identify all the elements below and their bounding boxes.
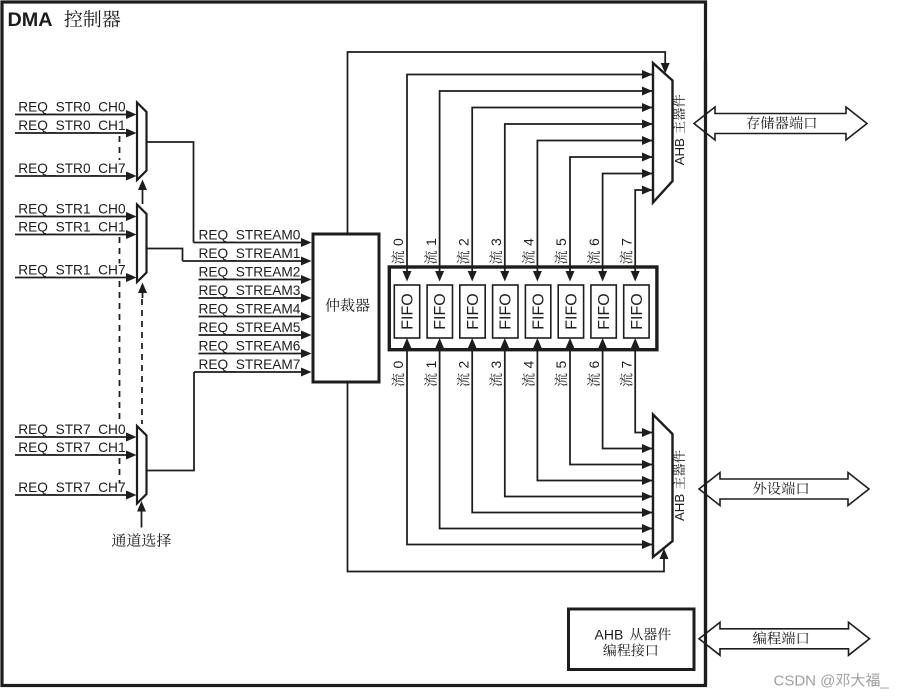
DMA controller outer box [2,2,706,686]
channel mux 1 [137,205,147,283]
wire stream 7 FIFO to AHB master 2 [631,338,653,437]
wire REQ_STREAM4 with label [199,302,312,322]
label 存储器端口 [747,116,816,129]
mux 0 select arrow [138,180,147,205]
svg-text:REQ_STREAM6: REQ_STREAM6 [199,339,301,354]
dashed ellipsis groups 2..6 [119,281,121,424]
programming port double arrow [699,622,870,655]
FIFO 7 [624,285,649,338]
svg-text:2: 2 [455,238,471,246]
wire stream 7 FIFO to AHB master 1 [631,186,653,282]
mux 1 output wire to REQ_STREAM1 [147,249,183,262]
svg-text:AHB: AHB [672,138,687,165]
svg-text:REQ_STREAM7: REQ_STREAM7 [199,357,301,372]
FIFO 1 [427,285,452,338]
svg-text:4: 4 [521,238,537,246]
wire stream 1 FIFO to AHB master 1 [435,87,653,282]
label 流 7 bottom [618,361,634,387]
FIFO 6 [591,285,616,338]
label 流 0 top [390,238,406,264]
svg-text:REQ_STREAM1: REQ_STREAM1 [199,246,301,261]
wire REQ_STR0_CH1 with label [15,118,137,138]
svg-text:REQ_STREAM5: REQ_STREAM5 [199,320,301,335]
svg-text:REQ_STREAM0: REQ_STREAM0 [199,228,301,243]
label 流 2 bottom [455,361,471,387]
watermark CSDN @邓大福_ [774,673,890,690]
svg-text:3: 3 [488,361,504,369]
svg-text:REQ_STR1_CH0: REQ_STR1_CH0 [18,202,126,217]
label 流 2 top [455,238,471,264]
svg-text:FIFO: FIFO [563,293,580,329]
wire stream 2 FIFO to AHB master 1 [468,103,653,282]
dashed ellipsis group1 CH1..CH7 and groups 2..6 [119,237,121,264]
wire REQ_STR7_CH1 with label [15,440,137,460]
svg-text:0: 0 [390,361,406,369]
peripheral port double arrow [699,473,869,506]
wire stream 0 FIFO to AHB master 2 [403,338,654,549]
right border segment over ports [704,60,707,684]
svg-text:7: 7 [618,238,634,246]
wire REQ_STR0_CH0 with label [15,100,137,120]
svg-text:6: 6 [586,361,602,369]
label 流 4 top [521,238,537,264]
FIFO 0 [394,285,419,338]
wire REQ_STR7_CH0 with label [15,422,137,442]
svg-text:REQ_STR1_CH1: REQ_STR1_CH1 [18,220,125,235]
wire arbiter bottom to AHB master 2 [348,382,669,572]
wire stream 3 FIFO to AHB master 2 [500,338,653,501]
svg-text:REQ_STR7_CH7: REQ_STR7_CH7 [18,480,125,495]
label 流 6 top [586,238,602,264]
wire REQ_STREAM7 with label [194,357,312,377]
svg-text:FIFO: FIFO [432,293,449,329]
svg-text:REQ_STR7_CH1: REQ_STR7_CH1 [18,440,125,455]
label 流 5 bottom [553,361,569,387]
svg-text:REQ_STR0_CH1: REQ_STR0_CH1 [18,118,125,133]
AHB slave programming interface box [569,609,695,670]
label AHB 主器件 (master 1) [672,95,687,165]
wire stream 0 FIFO to AHB master 1 [403,70,654,282]
wire stream 6 FIFO to AHB master 2 [598,338,653,453]
svg-text:DMA: DMA [8,9,53,31]
label 流 5 top [553,238,569,264]
wire stream 4 FIFO to AHB master 1 [533,136,653,282]
svg-text:0: 0 [390,238,406,246]
title DMA 控制器 [8,9,121,31]
AHB master 1 (memory) trapezoid [653,63,673,203]
FIFO 3 [493,285,518,338]
label 通道选择 [112,533,171,547]
wire stream 5 FIFO to AHB master 1 [566,153,654,282]
svg-text:FIFO: FIFO [498,293,515,329]
FIFO 5 [558,285,583,338]
svg-text:FIFO: FIFO [531,293,548,329]
label 流 4 bottom [521,361,537,387]
svg-text:REQ_STR7_CH0: REQ_STR7_CH0 [18,422,126,437]
label 外设端口 [753,482,808,495]
svg-text:CSDN @: CSDN @ [774,673,836,690]
wire stream 1 FIFO to AHB master 2 [435,338,653,533]
svg-text:1: 1 [423,361,439,369]
label 流 6 bottom [586,361,602,387]
wire REQ_STR7_CH7 with label [15,480,137,500]
AHB master 2 (peripheral) trapezoid [653,415,673,558]
arbiter block [313,234,379,382]
svg-text:AHB: AHB [595,626,624,642]
svg-text:4: 4 [521,361,537,369]
svg-text:2: 2 [455,361,471,369]
label AHB 主器件 (master 2) [672,451,687,521]
FIFO 2 [460,285,485,338]
svg-text:REQ_STR1_CH7: REQ_STR1_CH7 [18,263,125,278]
wire REQ_STREAM3 with label [199,283,312,303]
dashed ellipsis group7 CH1..CH7 [119,458,121,484]
wire REQ_STR1_CH0 with label [15,202,137,222]
svg-text:FIFO: FIFO [629,293,646,329]
svg-text:_: _ [879,673,889,690]
mux 7 select arrow [137,501,146,528]
memory port double arrow [694,107,867,140]
dashed ellipsis group0 CH1..CH7 [119,136,121,160]
label 流 0 bottom [390,361,406,387]
wire arbiter top to AHB master 1 [348,52,670,234]
wire stream 3 FIFO to AHB master 1 [500,120,653,282]
wire REQ_STR1_CH1 with label [15,220,137,240]
svg-text:AHB: AHB [672,494,687,521]
FIFO bank box [389,267,657,350]
label 编程端口 [753,631,808,644]
wire stream 5 FIFO to AHB master 2 [566,338,654,469]
svg-text:REQ_STREAM2: REQ_STREAM2 [199,265,301,280]
wire REQ_STREAM6 with label [199,339,312,359]
svg-text:5: 5 [553,361,569,369]
svg-text:FIFO: FIFO [465,293,482,329]
mux 7 output wire to REQ_STREAM7 [147,372,195,471]
mux 1 select arrow [138,283,147,299]
label 流 7 top [618,238,634,264]
mux 0 output wire to REQ_STREAM0 [147,142,194,243]
wire REQ_STR1_CH7 with label [15,263,137,283]
label 流 3 top [488,238,504,264]
wire REQ_STREAM2 with label [199,265,312,285]
svg-text:5: 5 [553,238,569,246]
svg-text:FIFO: FIFO [399,293,416,329]
channel mux 7 [137,426,147,504]
svg-text:FIFO: FIFO [596,293,613,329]
FIFO 4 [525,285,550,338]
label 流 1 bottom [423,361,439,387]
svg-text:REQ_STR0_CH7: REQ_STR0_CH7 [18,161,125,176]
wire REQ_STREAM5 with label [199,320,312,340]
label 流 3 bottom [488,361,504,387]
svg-text:1: 1 [423,238,439,246]
label AHB 从器件 编程接口 [595,626,671,656]
wire REQ_STREAM0 with label [194,228,312,248]
svg-text:REQ_STR0_CH0: REQ_STR0_CH0 [18,100,126,115]
wire stream 6 FIFO to AHB master 1 [598,169,653,282]
wire REQ_STR0_CH7 with label [15,161,137,181]
svg-text:REQ_STREAM3: REQ_STREAM3 [199,283,301,298]
wire stream 4 FIFO to AHB master 2 [533,338,653,485]
mux select dashed line (ellipsis muxes 2..6) [141,299,143,424]
svg-text:3: 3 [488,238,504,246]
label 流 1 top [423,238,439,264]
channel mux 0 [137,103,147,181]
svg-text:REQ_STREAM4: REQ_STREAM4 [199,302,301,317]
wire stream 2 FIFO to AHB master 2 [468,338,653,517]
svg-text:7: 7 [618,361,634,369]
wire REQ_STREAM1 with label [183,246,312,266]
label 仲裁器 [325,298,369,312]
svg-text:6: 6 [586,238,602,246]
